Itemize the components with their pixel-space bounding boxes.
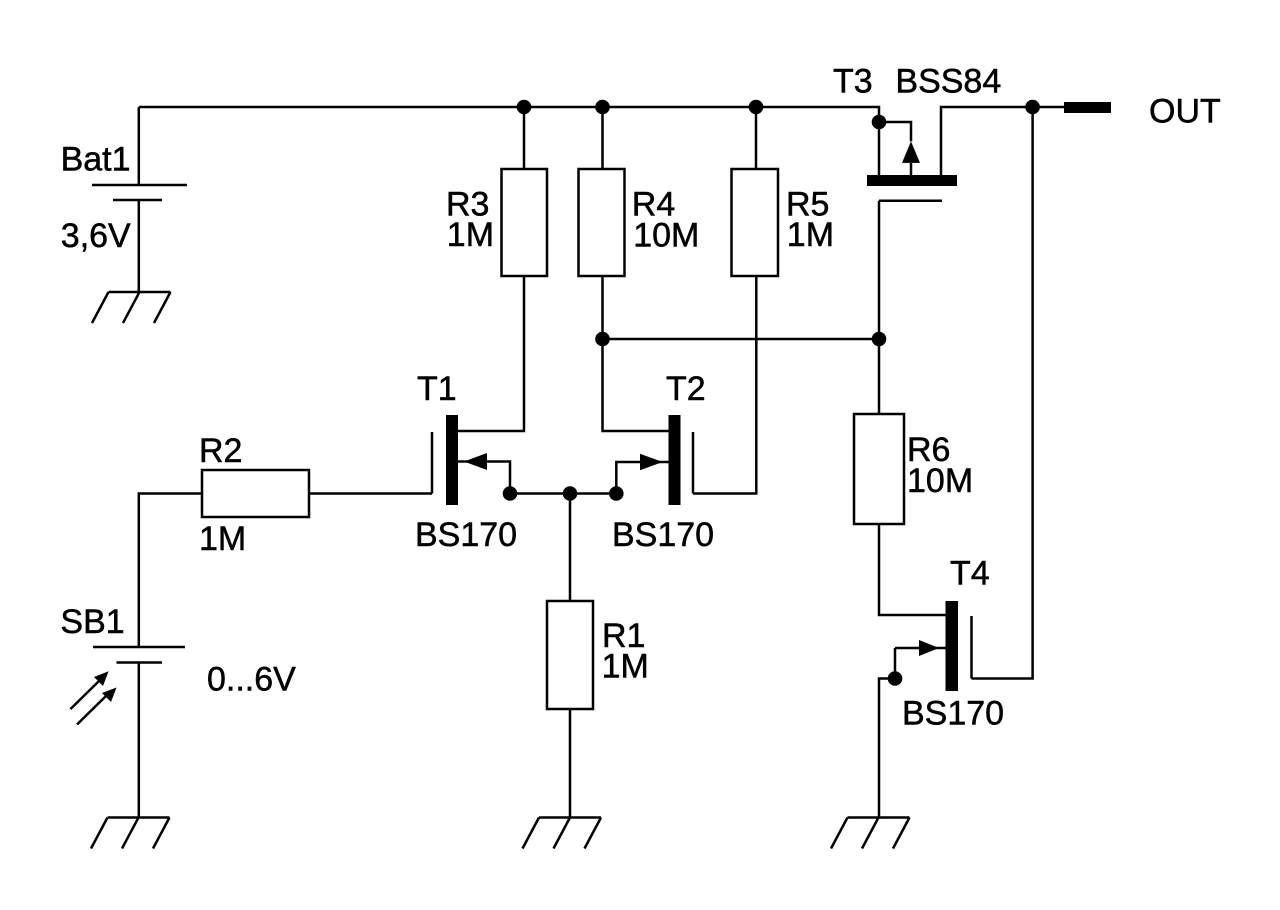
svg-text:T2: T2 xyxy=(666,370,706,408)
svg-text:10M: 10M xyxy=(907,462,973,500)
resistor R5 xyxy=(732,169,779,276)
T4 source arrow head xyxy=(919,640,939,656)
SB1 light arrow head 1 xyxy=(94,671,109,686)
T2 source arrow head xyxy=(640,454,663,471)
svg-text:BS170: BS170 xyxy=(902,695,1004,733)
transistor T4 channel bar xyxy=(946,601,959,691)
wire SB1 top to R2 xyxy=(139,494,202,648)
ground under R1 xyxy=(523,818,602,849)
resistor R2 xyxy=(202,470,309,517)
junction node mid rail left xyxy=(595,332,610,347)
wire T2 gate to R5 xyxy=(693,276,756,494)
SB1 light arrow head 2 xyxy=(102,688,117,703)
svg-text:10M: 10M xyxy=(633,216,699,254)
wire node to R6 xyxy=(878,339,881,414)
terminal OUT bar xyxy=(1064,102,1111,113)
wire T2 drain to R4 xyxy=(603,276,670,431)
light arrow 2 on SB1 xyxy=(77,694,108,725)
wire R4 stub xyxy=(601,107,604,169)
junction node T4 source xyxy=(888,671,903,686)
svg-text:BS170: BS170 xyxy=(415,516,517,554)
battery SB1 long plate xyxy=(93,646,185,649)
battery Bat1 short plate xyxy=(113,199,162,202)
wire T2 source xyxy=(616,462,669,494)
ground under T4 xyxy=(831,818,910,849)
wire T4 source xyxy=(895,647,946,650)
T1 source arrow head xyxy=(464,453,487,470)
svg-text:T4: T4 xyxy=(950,555,990,593)
svg-text:1M: 1M xyxy=(602,647,649,685)
wire OUT vertical down to T4 gate xyxy=(972,107,1033,679)
resistor R6 xyxy=(854,414,904,524)
resistor R3 xyxy=(502,169,548,276)
ground under Bat1 xyxy=(92,292,171,323)
wire R3 stub xyxy=(523,107,526,169)
light arrow 1 on SB1 xyxy=(70,680,100,709)
svg-text:0...6V: 0...6V xyxy=(207,661,296,699)
wire T3 body link xyxy=(879,122,911,141)
wire R2 to T1 gate xyxy=(309,492,432,495)
transistor T2 gate plate xyxy=(692,432,695,494)
svg-text:OUT: OUT xyxy=(1149,92,1221,130)
svg-text:T3: T3 xyxy=(833,62,873,100)
wire R5 stub xyxy=(755,107,758,169)
svg-text:BSS84: BSS84 xyxy=(895,62,1001,100)
wire top supply rail xyxy=(139,107,879,175)
transistor T2 channel bar xyxy=(669,415,681,505)
resistor R1 xyxy=(547,601,593,709)
junction node R1 top xyxy=(563,486,578,501)
svg-text:Bat1: Bat1 xyxy=(61,141,131,179)
junction node OUT xyxy=(1025,100,1040,115)
svg-text:SB1: SB1 xyxy=(60,603,124,641)
wire T4 source to ground xyxy=(879,679,895,818)
ground under SB1 xyxy=(91,818,170,849)
wire R6 to T4 drain xyxy=(879,524,946,615)
junction node mid rail right xyxy=(872,332,887,347)
transistor T1 channel bar xyxy=(446,415,458,505)
wire rail to R1 xyxy=(569,494,572,602)
junction node top R3 xyxy=(517,100,532,115)
svg-text:R2: R2 xyxy=(199,432,242,470)
wire Bat1 bottom to ground xyxy=(138,200,141,292)
transistor T3 gate plate xyxy=(879,199,942,202)
resistor R4 xyxy=(579,169,625,276)
T3 body arrow head xyxy=(902,141,920,163)
svg-text:3,6V: 3,6V xyxy=(61,217,131,255)
wire SB1 bottom to ground xyxy=(138,663,141,818)
junction node top R4 xyxy=(595,100,610,115)
wire source rail xyxy=(510,492,616,495)
wire mid rail node to T3 gate xyxy=(603,338,880,341)
wire T4 source down xyxy=(894,648,897,679)
wire Bat1 top xyxy=(138,107,141,185)
wire T1 drain to R3 xyxy=(458,276,524,431)
junction node T1 source xyxy=(503,486,518,501)
wire T3 drain to OUT xyxy=(941,107,1064,175)
transistor T1 gate plate xyxy=(431,432,434,494)
wire T1 source xyxy=(458,462,510,494)
junction node top R5 xyxy=(749,100,764,115)
svg-text:1M: 1M xyxy=(199,520,246,558)
junction node T3 source/body xyxy=(872,115,887,130)
transistor T3 channel bar xyxy=(867,175,957,186)
wire T3 gate down xyxy=(878,201,881,339)
svg-text:1M: 1M xyxy=(787,216,834,254)
svg-text:T1: T1 xyxy=(417,370,457,408)
junction node T2 source xyxy=(609,486,624,501)
wire T3 body to bar xyxy=(910,163,913,175)
battery SB1 short plate xyxy=(117,661,163,664)
svg-text:1M: 1M xyxy=(447,216,494,254)
transistor T4 gate plate xyxy=(970,616,973,679)
svg-text:BS170: BS170 xyxy=(612,516,714,554)
wire R1 to ground xyxy=(569,709,572,818)
battery Bat1 long plate xyxy=(92,184,187,187)
